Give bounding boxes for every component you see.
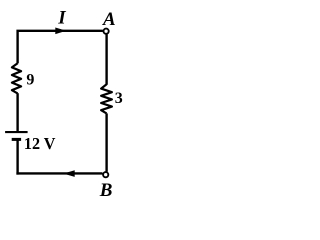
resistor R2 zigzag [101, 84, 112, 113]
wire top-left L (left branch upper + top wire to node A) [18, 31, 103, 64]
svg-text:I: I [57, 7, 66, 28]
svg-text:A: A [102, 9, 116, 30]
wire left middle (resistor 9 down to battery) [16, 93, 18, 131]
wire bottom (node B to bottom-left corner) [16, 172, 102, 174]
node B terminal circle [103, 172, 108, 177]
node A terminal circle [104, 29, 109, 34]
battery short plate (negative) [12, 138, 21, 141]
svg-text:9: 9 [26, 71, 34, 88]
wire right upper (node A down to resistor 3) [105, 34, 107, 84]
resistor R1 zigzag [12, 63, 21, 93]
wire left lower (battery down to bottom-left corner) [16, 139, 18, 174]
return current arrow head on bottom wire (pointing left) [65, 171, 75, 177]
svg-text:3: 3 [115, 90, 123, 107]
wire right lower (resistor 3 down to node B) [105, 113, 107, 171]
svg-text:12 V: 12 V [24, 134, 56, 153]
battery long plate (positive) [5, 131, 28, 133]
svg-text:B: B [99, 180, 113, 200]
current arrow head on top wire [56, 28, 66, 34]
